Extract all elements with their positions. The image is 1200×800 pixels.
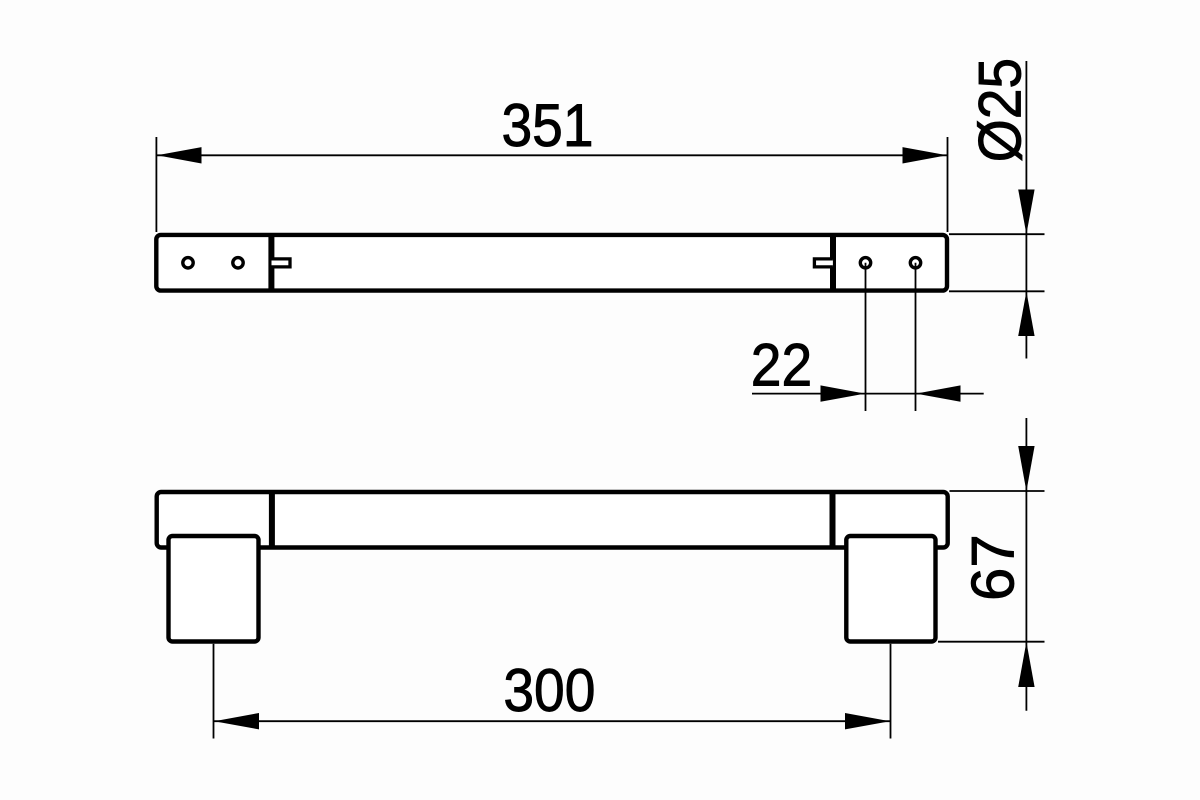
arrowhead up (Ø25) (1018, 291, 1034, 336)
right end-cap divider (top view) (830, 233, 836, 293)
dimension line (67) (1025, 418, 1027, 711)
extension line bottom (67) (938, 641, 1045, 643)
extension line top (Ø25) (949, 233, 1045, 235)
right retaining tab (top view) (814, 259, 833, 267)
rail body (front view outline) (157, 492, 948, 548)
extension line right (300) (890, 644, 892, 739)
left end-cap divider (top view) (268, 233, 274, 293)
screw hole right-cap 2 (910, 258, 920, 268)
arrowhead left-pointing (22) (916, 385, 961, 401)
dimension line (22) (752, 393, 984, 395)
arrowhead right-pointing (22) (821, 385, 866, 401)
dimension line (Ø25) (1025, 61, 1027, 359)
extension line right (351) (947, 137, 949, 232)
arrowhead left (300) (214, 713, 259, 729)
svg-text:22: 22 (751, 332, 812, 399)
left retaining tab (top view) (272, 259, 291, 267)
arrowhead down (67) (1018, 446, 1034, 491)
screw hole left-cap 1 (183, 258, 193, 268)
projection line hole 1 (22) (865, 263, 867, 411)
svg-text:300: 300 (503, 658, 595, 725)
arrowhead right (351) (903, 147, 948, 163)
screw hole right-cap 1 (860, 258, 870, 268)
left wall post (front view) (169, 536, 259, 642)
extension line left (300) (213, 644, 215, 739)
arrowhead left (351) (157, 147, 202, 163)
svg-text:67: 67 (960, 534, 1027, 601)
left end-cap divider (front view) (269, 490, 275, 550)
extension line top (67) (950, 490, 1045, 492)
right end-cap divider (front view) (830, 490, 836, 550)
right wall post (front view) (846, 536, 935, 642)
extension line bottom (Ø25) (949, 290, 1045, 292)
projection line hole 2 (22) (915, 263, 917, 411)
svg-text:Ø25: Ø25 (968, 58, 1035, 162)
dimension line (300) (214, 720, 890, 722)
svg-text:351: 351 (501, 93, 593, 160)
arrowhead up (67) (1018, 642, 1034, 687)
rail body (top view outline) (156, 235, 947, 291)
arrowhead down (Ø25) (1018, 190, 1034, 235)
screw hole left-cap 2 (233, 258, 243, 268)
arrowhead right (300) (845, 713, 890, 729)
extension line left (351) (155, 137, 157, 232)
dimension line (351) (157, 154, 947, 156)
